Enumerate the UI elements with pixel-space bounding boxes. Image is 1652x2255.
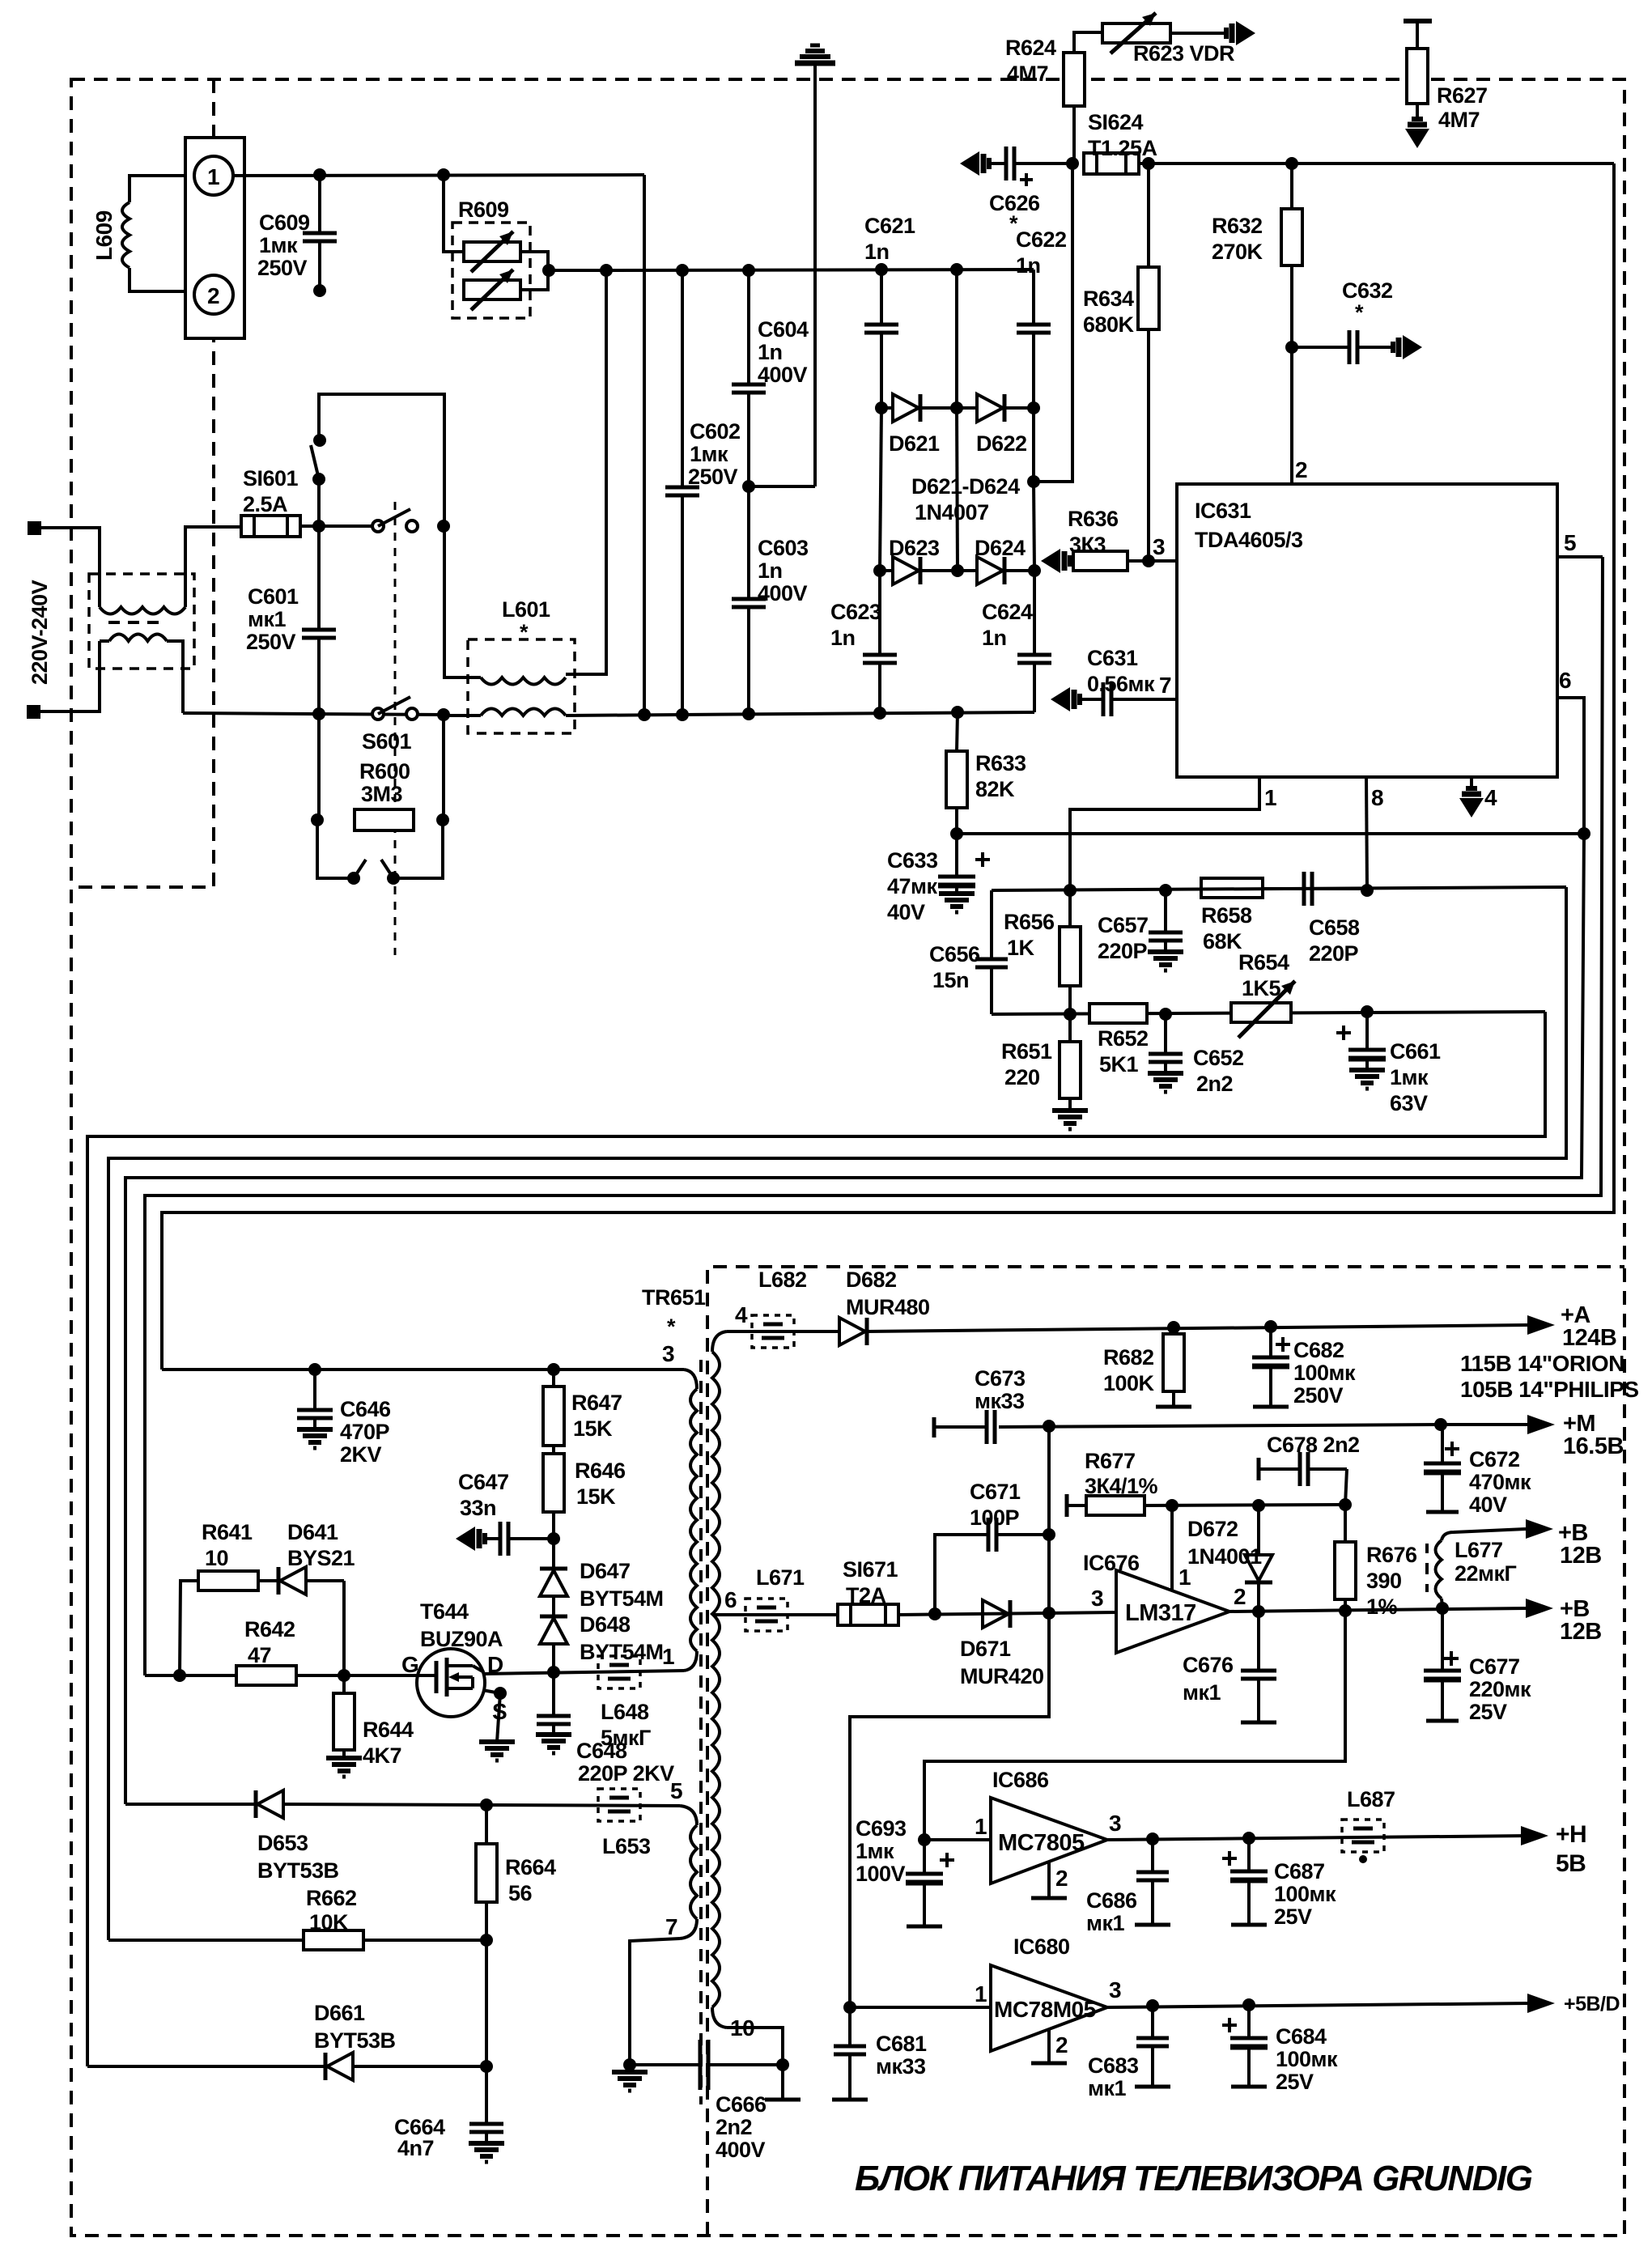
label C684 (1276, 2024, 1338, 2094)
svg-text:2: 2 (1055, 2032, 1068, 2058)
wire M to arrow (1441, 1423, 1529, 1426)
svg-text:C678 2n2: C678 2n2 (1267, 1433, 1360, 1457)
resistor R641 (198, 1571, 258, 1590)
diode D672 vertical (1245, 1505, 1272, 1612)
resistor R652 (1089, 1004, 1147, 1023)
wire M line (934, 1417, 1441, 1438)
svg-text:63V: 63V (1390, 1091, 1428, 1115)
svg-text:100мк: 100мк (1276, 2047, 1338, 2071)
label C652 (1193, 1046, 1244, 1096)
diode D671 (983, 1600, 1010, 1628)
capacitor C648 (537, 1672, 571, 1735)
svg-text:1K: 1K (1007, 936, 1035, 960)
inductor L601 lower winding (481, 709, 566, 716)
svg-text:R682: R682 (1103, 1345, 1154, 1370)
label C664 (394, 2115, 445, 2160)
label pin5 (1564, 530, 1576, 555)
svg-text:C656: C656 (929, 942, 980, 966)
mains terminal upper (28, 521, 41, 535)
svg-text:40V: 40V (1469, 1493, 1507, 1517)
svg-text:R634: R634 (1083, 287, 1134, 311)
label D661 (314, 2001, 396, 2053)
svg-text:C683: C683 (1088, 2053, 1139, 2078)
svg-text:мк1: мк1 (248, 607, 286, 631)
resistor R647 (543, 1370, 564, 1446)
wire R609 outputs join (520, 252, 606, 290)
svg-text:1%: 1% (1366, 1595, 1398, 1619)
transformer T601 secondary winding (109, 635, 167, 642)
svg-text:D641: D641 (287, 1520, 338, 1544)
label pin2 (1295, 457, 1307, 482)
svg-text:L609: L609 (91, 210, 117, 261)
label +H (1556, 1821, 1586, 1877)
mains terminal lower (27, 705, 40, 719)
node D672 top (1252, 1499, 1265, 1512)
label SI601 (243, 466, 299, 516)
svg-text:R664: R664 (505, 1855, 556, 1879)
node SI624 left (1066, 157, 1079, 170)
ground C646 (297, 1429, 333, 1448)
svg-text:16.5В: 16.5В (1563, 1433, 1624, 1459)
svg-text:1мк: 1мк (1390, 1065, 1429, 1089)
label pin10n (730, 2015, 754, 2041)
svg-text:IC686: IC686 (992, 1768, 1049, 1792)
svg-text:1n: 1n (830, 626, 856, 650)
ground C648 (536, 1735, 571, 1753)
label pin3n (662, 1341, 674, 1366)
node on pin2 line at C609 (313, 284, 326, 297)
svg-text:BYT54M: BYT54M (580, 1586, 664, 1611)
svg-text:100мк: 100мк (1274, 1882, 1336, 1906)
resistor R627 (1404, 21, 1432, 119)
svg-text:SI601: SI601 (243, 466, 299, 490)
svg-text:D661: D661 (314, 2001, 365, 2025)
wire C601 down to R600 (317, 714, 321, 820)
label SI624 (1088, 110, 1157, 160)
wire pin10 stub (765, 2065, 801, 2100)
node fb pin8 (1361, 884, 1374, 897)
wire C622 branch vertical (1034, 482, 1034, 571)
label pin7n (665, 1914, 677, 1939)
wire source (474, 1688, 500, 1742)
capacitor C681 (832, 2007, 868, 2100)
label C678 (1267, 1433, 1360, 1457)
svg-text:22мкГ: 22мкГ (1455, 1561, 1517, 1586)
connector pin 2 circle (194, 275, 233, 314)
wire lower rail right (566, 712, 1034, 716)
capacitor C673 (987, 1410, 995, 1444)
svg-text:T2A: T2A (846, 1583, 886, 1607)
label C681 (876, 2032, 927, 2079)
label pin8 (1371, 785, 1383, 810)
svg-text:5K1: 5K1 (1099, 1052, 1139, 1077)
arrow +B upper (1526, 1519, 1553, 1539)
wire R662 line (108, 1939, 486, 1942)
wire R641 branch (180, 1581, 198, 1675)
svg-text:мк1: мк1 (1088, 2076, 1126, 2100)
label R609 (458, 197, 509, 222)
node pin2 D672 (1252, 1605, 1265, 1618)
wire pin8 (1366, 777, 1367, 890)
label D653 (257, 1831, 339, 1883)
diode D661 (325, 2053, 353, 2080)
wire loop E (162, 163, 1614, 1370)
svg-text:R644: R644 (363, 1718, 414, 1742)
label C603 (758, 536, 809, 605)
svg-text:68K: 68K (1203, 929, 1242, 953)
label D671 (960, 1637, 1044, 1688)
svg-text:D624: D624 (975, 536, 1026, 560)
node top rail C604 (742, 264, 755, 277)
resistor R642 (236, 1666, 296, 1685)
source arrow C626 (960, 151, 989, 176)
wire pin1 to C609 line (233, 175, 644, 176)
ground C657 (1148, 952, 1183, 970)
inductor L601 upper winding (481, 677, 566, 685)
node C661 top (1361, 1005, 1374, 1018)
wire D653 line (125, 1804, 680, 1806)
op-amp regulator IC676 LM317 (1116, 1570, 1229, 1653)
svg-text:47: 47 (248, 1643, 271, 1667)
label LM317 pin1 (1178, 1565, 1191, 1590)
label +5B/D (1564, 1993, 1620, 2015)
svg-text:G: G (401, 1652, 418, 1677)
transformer TR651 secondary winding (712, 1331, 727, 2028)
svg-text:R632: R632 (1212, 214, 1263, 238)
ground pin4 (1459, 788, 1484, 817)
wire IC680 out line (1107, 2003, 1529, 2007)
svg-text:5: 5 (1564, 530, 1576, 555)
ground C633 (939, 894, 975, 912)
svg-text:C657: C657 (1098, 913, 1149, 937)
svg-text:82K: 82K (975, 777, 1015, 801)
label R676 (1366, 1543, 1417, 1619)
label T644 (420, 1599, 503, 1651)
switch S601 upper pole (372, 509, 418, 532)
capacitor C666 plates (700, 2040, 708, 2090)
ground R651 (1052, 1111, 1088, 1129)
svg-text:100P: 100P (970, 1505, 1020, 1530)
wire R623 to arrow (1170, 32, 1227, 35)
inductor L687 (1342, 1820, 1384, 1852)
wire IC686 pin2 (1031, 1862, 1067, 1898)
wire loop D (145, 557, 1603, 1675)
label C646 (340, 1397, 391, 1467)
svg-text:L677: L677 (1455, 1538, 1503, 1562)
svg-text:1: 1 (207, 164, 219, 189)
capacitor C683 (1135, 2006, 1170, 2087)
svg-text:5В: 5В (1556, 1850, 1586, 1877)
wire L601 top feed (566, 270, 606, 674)
svg-text:2: 2 (207, 283, 219, 308)
resistor R609 lower (464, 270, 520, 310)
svg-text:R656: R656 (1004, 910, 1055, 934)
svg-text:220P: 220P (1309, 941, 1359, 966)
svg-text:L687: L687 (1347, 1787, 1395, 1811)
resistor R600 (355, 809, 414, 830)
svg-text:3К3: 3К3 (1069, 533, 1106, 557)
svg-text:R636: R636 (1068, 507, 1119, 531)
svg-text:C647: C647 (458, 1470, 509, 1494)
svg-text:250V: 250V (246, 630, 296, 654)
label R654 (1238, 950, 1289, 1000)
svg-text:3К4/1%: 3К4/1% (1085, 1474, 1158, 1498)
voltage regulator IC680 MC78M05 (991, 1965, 1107, 2051)
svg-text:R676: R676 (1366, 1543, 1417, 1567)
svg-text:250V: 250V (1293, 1383, 1344, 1408)
node +5 C684 (1242, 1998, 1255, 2011)
label R646 (575, 1459, 626, 1509)
svg-text:1N4007: 1N4007 (915, 500, 989, 524)
svg-text:15K: 15K (576, 1484, 616, 1509)
svg-text:680K: 680K (1083, 312, 1135, 337)
wire pin10 (727, 2028, 783, 2065)
label pin1 (1264, 785, 1276, 810)
wire IC680 pin2 (1031, 2029, 1067, 2063)
svg-text:BYS21: BYS21 (287, 1546, 355, 1570)
wire mid vertical (955, 270, 958, 408)
svg-text:C632: C632 (1342, 278, 1393, 303)
transformer TR651 primary winding (684, 1370, 697, 1671)
svg-text:C666: C666 (716, 2092, 767, 2117)
label +M (1563, 1411, 1624, 1459)
svg-text:MC7805: MC7805 (998, 1830, 1085, 1856)
ground C666 (612, 2072, 648, 2091)
svg-text:C621: C621 (864, 214, 915, 238)
node lower rail mid (951, 706, 964, 719)
wire long line R633 (957, 832, 1584, 835)
label R642 (244, 1617, 295, 1667)
label IC686 pin2 (1055, 1866, 1068, 1891)
svg-text:*: * (520, 620, 529, 644)
svg-text:25V: 25V (1274, 1905, 1312, 1929)
label C626 (989, 191, 1040, 236)
node R609 output (542, 264, 555, 277)
transformer T601 core dashes (108, 621, 167, 624)
node D623 b (951, 564, 964, 577)
svg-text:D623: D623 (889, 536, 940, 560)
svg-text:R642: R642 (244, 1617, 295, 1641)
svg-text:R624: R624 (1005, 36, 1056, 60)
node D622 b (1027, 401, 1040, 414)
label C633 (887, 848, 938, 924)
node fuse out (312, 520, 325, 533)
arrow +M (1527, 1415, 1555, 1434)
ground top (795, 45, 835, 486)
svg-text:4М7: 4М7 (1438, 108, 1480, 132)
label pin6n (724, 1587, 737, 1612)
svg-text:C681: C681 (876, 2032, 927, 2056)
label +B upper (1558, 1520, 1602, 1569)
label R623 VDR (1133, 41, 1234, 66)
source arrow R623 (1226, 21, 1255, 45)
svg-text:C672: C672 (1469, 1447, 1520, 1471)
label C609 (257, 210, 310, 280)
svg-text:SI624: SI624 (1088, 110, 1144, 134)
label C601 (246, 584, 299, 654)
node D621 b (950, 401, 963, 414)
capacitor C656 (975, 890, 1008, 1014)
label C693 (856, 1816, 907, 1886)
capacitor C603 (732, 486, 766, 714)
svg-text:C623: C623 (830, 600, 881, 624)
wire L601 lower left (443, 714, 481, 717)
wire loop C (125, 834, 1584, 1804)
label IC686 pin1 (975, 1814, 987, 1839)
label C677 (1469, 1654, 1531, 1724)
node R633 bottom (950, 827, 963, 840)
svg-text:R658: R658 (1201, 903, 1252, 928)
label C682 (1293, 1338, 1356, 1408)
svg-text:TDA4605/3: TDA4605/3 (1195, 528, 1303, 552)
source arrow R636 (1041, 549, 1070, 573)
diode D653 (256, 1790, 283, 1818)
svg-text:мк33: мк33 (876, 2054, 926, 2079)
svg-text:C622: C622 (1016, 227, 1067, 252)
svg-text:BYT54M: BYT54M (580, 1640, 664, 1664)
node fb R656 (1064, 884, 1077, 897)
node D671 out (1043, 1607, 1055, 1620)
resistor R651 (1060, 1014, 1081, 1111)
capacitor C609 (303, 175, 337, 291)
svg-text:D682: D682 (846, 1268, 897, 1292)
voltage regulator IC686 MC7805 (991, 1798, 1107, 1883)
node pin3 (1142, 554, 1155, 567)
wire pin4 (1470, 777, 1473, 789)
label R682 (1103, 1345, 1155, 1395)
label L682 (758, 1268, 807, 1292)
node top rail C621 (875, 263, 888, 276)
capacitor C604 (732, 270, 766, 486)
svg-text:C601: C601 (248, 584, 299, 609)
label R641 (202, 1520, 253, 1570)
resistor R664 (476, 1805, 497, 1940)
svg-text:1K5: 1K5 (1242, 976, 1281, 1000)
wire D671 to IC680 branch (850, 1613, 1049, 2007)
node lower rail C601 (312, 707, 325, 720)
wire gate line (145, 1674, 418, 1677)
source arrow C631 (1051, 687, 1080, 711)
wire D671 vertical (1047, 1429, 1051, 1613)
svg-text:1n: 1n (758, 340, 783, 364)
label C624 (982, 600, 1033, 650)
L601 dashed box (468, 639, 575, 733)
node top rail mid (950, 263, 963, 276)
capacitor C633 (938, 834, 990, 894)
node +H C687 (1242, 1832, 1255, 1845)
connector pin 1 circle (194, 156, 233, 195)
node D623 a (873, 564, 886, 577)
label IC680 pin2 (1055, 2032, 1068, 2058)
diode D622 (957, 394, 1034, 422)
svg-text:L601: L601 (502, 597, 550, 622)
label C656 (929, 942, 980, 992)
label IC680 (1013, 1934, 1070, 1959)
svg-text:BYT53B: BYT53B (257, 1858, 339, 1883)
switch S601 coupling dashed (394, 502, 397, 955)
svg-text:7: 7 (665, 1914, 677, 1939)
wire T601 secondary right (100, 641, 183, 713)
svg-text:15n: 15n (932, 968, 969, 992)
label IC686 pin3 (1109, 1811, 1121, 1836)
label 220V-240V (28, 580, 52, 685)
svg-text:R633: R633 (975, 751, 1026, 775)
svg-text:C693: C693 (856, 1816, 907, 1841)
node on pin1 line at C609 (313, 168, 326, 181)
wire mid vertical 2 (957, 408, 958, 571)
wire fb top line (992, 887, 1566, 890)
svg-text:L671: L671 (756, 1565, 805, 1590)
label R624 (1005, 36, 1056, 86)
R609 dashed box (452, 223, 530, 318)
svg-text:40V: 40V (887, 900, 925, 924)
svg-text:6: 6 (724, 1587, 737, 1612)
svg-text:1n: 1n (1016, 253, 1041, 278)
label IC676 (1083, 1551, 1140, 1575)
node pin6 long line (1578, 827, 1590, 840)
svg-text:D648: D648 (580, 1612, 631, 1637)
svg-text:IC680: IC680 (1013, 1934, 1070, 1959)
node R652 left (1064, 1008, 1077, 1021)
svg-text:C661: C661 (1390, 1039, 1441, 1064)
svg-text:L682: L682 (758, 1268, 807, 1292)
svg-text:R651: R651 (1001, 1039, 1052, 1064)
svg-text:C658: C658 (1309, 915, 1360, 940)
svg-text:R652: R652 (1098, 1026, 1149, 1051)
ground source (479, 1742, 515, 1760)
label C658 (1309, 915, 1360, 966)
wire C666 line (630, 2063, 783, 2066)
transformer TR651 core dashes (699, 1360, 703, 2104)
label +A (1561, 1302, 1616, 1351)
label C623 (830, 600, 881, 650)
svg-text:115В 14"ORION: 115В 14"ORION (1460, 1351, 1624, 1376)
svg-text:D622: D622 (976, 431, 1027, 456)
resistor R682 (1156, 1327, 1191, 1407)
label IC680 pin1 (975, 1981, 987, 2007)
label D621 (889, 431, 940, 456)
capacitor C624 (1017, 571, 1051, 712)
wire loop A (87, 1012, 1545, 2066)
label R647 (571, 1391, 622, 1441)
node IC680 pin1 (843, 2001, 856, 2014)
svg-text:D621-D624: D621-D624 (911, 474, 1020, 499)
capacitor C622 (1017, 270, 1051, 408)
svg-text:R677: R677 (1085, 1449, 1136, 1473)
svg-text:4: 4 (1484, 785, 1497, 810)
svg-text:мк1: мк1 (1183, 1680, 1221, 1705)
capacitor C671 loop (935, 1518, 1049, 1614)
svg-text:3: 3 (1091, 1586, 1103, 1611)
svg-text:56: 56 (508, 1881, 533, 1905)
inductor L653 (598, 1789, 640, 1821)
resistor R676 (1335, 1505, 1356, 1611)
svg-text:R627: R627 (1437, 83, 1488, 108)
svg-text:1мк: 1мк (690, 442, 728, 466)
node pin3 C646 (308, 1363, 321, 1376)
svg-text:+5В/D: +5В/D (1564, 1993, 1620, 2015)
svg-text:47мк: 47мк (887, 874, 938, 898)
svg-text:250V: 250V (688, 465, 738, 489)
svg-text:400V: 400V (758, 581, 808, 605)
resistor R636 (1070, 551, 1177, 571)
svg-text:3: 3 (1109, 1811, 1121, 1836)
label S (492, 1699, 507, 1724)
svg-text:4K7: 4K7 (363, 1743, 401, 1768)
svg-text:2n2: 2n2 (1196, 1072, 1233, 1096)
capacitor C678 plates (1300, 1452, 1308, 1486)
svg-text:TR651: TR651 (642, 1285, 706, 1310)
